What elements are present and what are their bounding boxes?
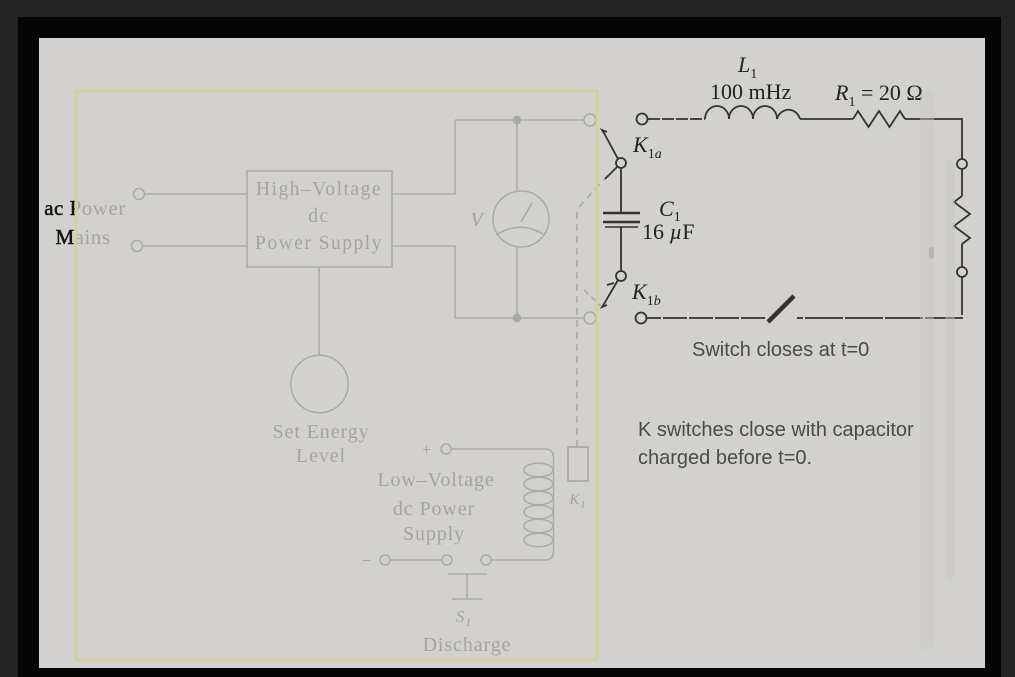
capacitor C1 top plate xyxy=(603,212,640,214)
wire LV minus to S1 xyxy=(390,559,442,561)
switch K1a blade xyxy=(602,130,618,159)
svg-text:Low–Voltage: Low–Voltage xyxy=(377,469,494,491)
terminal LV minus xyxy=(380,555,390,565)
switch S1 stem xyxy=(466,574,468,599)
dashed mechanical linkage vertical xyxy=(576,210,578,447)
wire set-energy stem xyxy=(318,267,320,356)
wire C1 to K1b xyxy=(620,227,622,271)
svg-text:High–Voltage: High–Voltage xyxy=(256,179,382,200)
wire L1 to R1 xyxy=(800,118,853,120)
switch S1 pushbutton bar xyxy=(448,573,487,575)
junction dot bottom xyxy=(513,314,520,321)
switch K1b barb xyxy=(607,283,614,285)
wire bottom bus xyxy=(455,317,591,319)
load resistor vertical zigzag xyxy=(954,196,970,244)
wire right down leg xyxy=(797,277,962,318)
yellow highlight border xyxy=(76,91,597,660)
inductor L1 winding xyxy=(705,106,800,119)
wire load resistor to node xyxy=(961,244,963,267)
svg-text:−: − xyxy=(362,551,373,570)
scan streak artifacts xyxy=(920,90,955,650)
terminal node bottom left (K1b out) xyxy=(636,313,647,324)
wire mains top to HV supply xyxy=(145,193,248,195)
wire LV plus to relay coil xyxy=(451,449,554,560)
svg-text:Switch closes at t=0: Switch closes at t=0 xyxy=(692,339,869,361)
svg-text:charged before t=0.: charged before t=0. xyxy=(638,447,812,469)
switch S1 base bar xyxy=(452,598,482,600)
node right top (open circle) xyxy=(957,159,967,169)
terminal ac mains top xyxy=(134,189,145,200)
svg-text:dc: dc xyxy=(308,206,329,227)
wire S1 to relay coil bottom xyxy=(491,559,545,561)
capacitor C1 bottom plate echo xyxy=(605,226,638,228)
svg-text:V: V xyxy=(470,209,485,231)
svg-text:Discharge: Discharge xyxy=(423,634,512,656)
dashed linkage to K1a blade xyxy=(579,175,608,207)
set energy level knob xyxy=(291,355,348,412)
svg-text:K switches close with capacito: K switches close with capacitor xyxy=(638,419,914,441)
dark clipped part of ac Power Mains xyxy=(44,196,126,249)
voltmeter needle xyxy=(521,203,532,222)
wire mains bottom to HV supply xyxy=(143,245,248,247)
svg-text:16 µF: 16 µF xyxy=(642,219,694,244)
terminal node top left (K1a out) xyxy=(637,114,648,125)
svg-text:Level: Level xyxy=(296,445,346,467)
node S1 right contact xyxy=(481,555,491,565)
node left bus top (open circle) xyxy=(584,114,596,126)
svg-text:Set Energy: Set Energy xyxy=(273,421,370,443)
junction dot top xyxy=(513,116,520,123)
svg-text:100 mHz: 100 mHz xyxy=(710,79,792,104)
wire HV top output xyxy=(392,120,455,194)
dashed linkage to K1b blade xyxy=(584,290,601,306)
node S1 left contact xyxy=(442,555,452,565)
switch K1a linkage stub xyxy=(605,167,617,179)
wire to load resistor xyxy=(961,169,963,196)
wire K1a to C1 xyxy=(620,168,622,212)
voltmeter scale arc xyxy=(496,227,543,235)
wire bottom left segment xyxy=(647,317,765,319)
annotation texts (sans) xyxy=(638,339,914,469)
terminal ac mains bottom xyxy=(132,241,143,252)
voltmeter V1 body xyxy=(493,191,549,247)
relay K1 armature box xyxy=(568,447,588,481)
node right bottom (open circle) xyxy=(957,267,967,277)
svg-text:dc Power: dc Power xyxy=(393,498,475,520)
switch K1b blade xyxy=(602,280,618,307)
node left bus bottom (open circle) xyxy=(584,312,596,324)
wire R1 to right corner xyxy=(905,119,962,159)
resistor R1 zigzag xyxy=(853,111,905,127)
terminal LV plus xyxy=(441,444,451,454)
svg-text:Supply: Supply xyxy=(403,523,465,545)
switch K1b pivot xyxy=(616,271,626,281)
capacitor C1 bottom plate xyxy=(603,221,640,223)
switch K1a pivot xyxy=(616,158,626,168)
dark labels of right circuit xyxy=(631,52,923,309)
wire voltmeter top lead xyxy=(516,120,518,191)
high-voltage dc power supply box xyxy=(247,171,392,267)
wire HV bottom output xyxy=(392,246,455,318)
wire top bus xyxy=(455,119,591,121)
svg-text:+: + xyxy=(422,440,433,459)
faded labels of left circuit xyxy=(44,179,586,656)
switch blade (closes at t=0) xyxy=(768,296,794,322)
svg-text:Power Supply: Power Supply xyxy=(255,233,383,254)
relay coil K1 winding xyxy=(524,463,553,477)
wire terminal to L1 xyxy=(648,118,705,120)
wire voltmeter bottom lead xyxy=(516,247,518,318)
